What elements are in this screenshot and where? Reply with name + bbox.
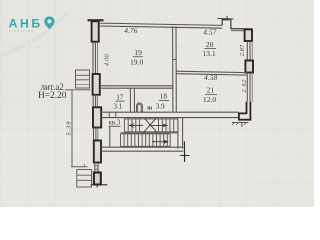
ground line bottom left [90, 184, 107, 186]
pier PB [245, 61, 253, 73]
pier P1 [92, 21, 99, 41]
svg-text:2.87: 2.87 [240, 44, 246, 56]
wall room20 / room21 [176, 71, 247, 72]
bottom right boot [239, 102, 251, 120]
toilet in room 18 [137, 103, 143, 112]
up arrow right [149, 124, 168, 126]
svg-text:20: 20 [206, 40, 214, 49]
svg-text:Н=2.20: Н=2.20 [38, 91, 67, 101]
svg-text:2.62: 2.62 [242, 79, 248, 93]
top T-bar chimney [88, 19, 104, 21]
svg-text:4.57: 4.57 [203, 28, 216, 36]
long wall below rooms [100, 111, 239, 113]
up arrow left [130, 124, 144, 126]
svg-text:5.39: 5.39 [65, 121, 72, 136]
annex side wall line [71, 90, 73, 167]
wall section mark [183, 141, 185, 162]
annex bottom line [71, 166, 88, 168]
svg-text:19: 19 [134, 48, 142, 57]
svg-text:13.1: 13.1 [202, 49, 215, 58]
window W3 [93, 128, 95, 141]
pier P3 [93, 107, 101, 127]
vent mark above step [217, 17, 233, 20]
watermark map pin [44, 16, 54, 29]
label leader line [65, 89, 91, 91]
stair break X [144, 118, 157, 132]
pier P4 [94, 141, 101, 163]
wall room19 / rooms17-18 [100, 85, 173, 87]
svg-text:4.58: 4.58 [204, 74, 217, 82]
corner pier PA [245, 29, 252, 41]
doorway W4 with threshold hatch [94, 163, 96, 173]
window WA [246, 41, 248, 61]
top right step [222, 20, 252, 31]
svg-text:17: 17 [116, 93, 124, 101]
pier P5 [94, 173, 101, 185]
svg-text:агентство: агентство [9, 29, 34, 33]
window W1 [92, 42, 94, 74]
ground line bottom right [232, 122, 248, 124]
svg-text:3.9: 3.9 [156, 103, 165, 111]
annex balcony box [76, 70, 90, 88]
pier P2 [93, 74, 100, 95]
svg-text:3.1: 3.1 [113, 103, 122, 111]
svg-text:m: m [147, 106, 152, 112]
landing left line [109, 126, 111, 146]
svg-text:4.00: 4.00 [103, 53, 110, 66]
down arrow lower flight [152, 141, 168, 143]
svg-text:кв.3: кв.3 [109, 120, 121, 127]
wall room17 / room18 [129, 88, 131, 112]
window W2 [92, 95, 94, 108]
svg-text:21: 21 [207, 86, 215, 95]
svg-text:19.0: 19.0 [130, 57, 143, 66]
stair hall bottom wall [101, 146, 183, 148]
porch steps [77, 170, 92, 188]
svg-text:18: 18 [160, 93, 168, 101]
divider wall rooms19-18 / 20-21 [172, 26, 174, 112]
upper flight [124, 119, 177, 132]
mid landing line [121, 132, 178, 134]
svg-text:12.0: 12.0 [203, 95, 216, 104]
watermark arc slogan [0, 2, 81, 61]
svg-text:4.76: 4.76 [124, 27, 137, 35]
lower flight [121, 134, 171, 147]
window WB [246, 73, 248, 102]
stairwell right wall [177, 118, 179, 149]
